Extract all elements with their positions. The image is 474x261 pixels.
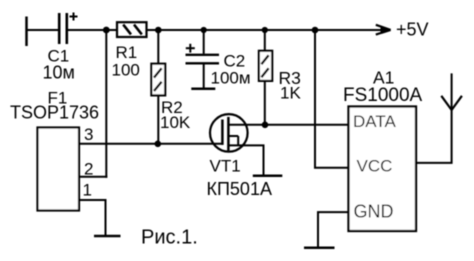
VT1 gate bar bbox=[221, 120, 224, 145]
R3 bottom wire to drain node bbox=[264, 81, 266, 125]
ground bar under C2 bbox=[191, 88, 215, 91]
svg-text:10м: 10м bbox=[43, 63, 75, 83]
drain node junction dot bbox=[262, 122, 269, 129]
R2 bottom wire bbox=[157, 95, 159, 143]
+5V arrowhead bbox=[376, 25, 391, 35]
node D junction dot (R3 top) bbox=[262, 27, 268, 33]
wire: terminal to C1 left plate bbox=[26, 29, 59, 31]
wire: left input terminal bar bbox=[25, 17, 28, 47]
transmitter module A1 box bbox=[349, 107, 417, 232]
capacitor C1 left plate bbox=[58, 13, 61, 44]
VT1 channel bar bbox=[227, 117, 230, 151]
wire: A1 GND pin bbox=[318, 212, 349, 248]
node A junction dot bbox=[103, 27, 110, 34]
ground bar under VT1 source bbox=[253, 175, 282, 178]
wire: F1 pin 2 bbox=[78, 176, 107, 178]
wire: VT1 drain to A1 DATA bbox=[228, 124, 348, 126]
C2 bottom plate bbox=[186, 62, 220, 64]
VT1 substrate tap bbox=[228, 135, 238, 137]
R2 slash 1 bbox=[154, 68, 162, 77]
C2 bottom wire bbox=[203, 63, 205, 89]
wire: node E down to VCC bbox=[314, 30, 316, 168]
svg-text:VT1: VT1 bbox=[210, 157, 241, 176]
R2 slash 2 bbox=[154, 82, 162, 91]
svg-text:VCC: VCC bbox=[357, 157, 393, 176]
svg-text:R1: R1 bbox=[116, 43, 138, 62]
C2 top plate bbox=[186, 54, 220, 56]
svg-text:DATA: DATA bbox=[353, 112, 396, 131]
ground bar under F1 bbox=[94, 235, 121, 238]
ground bar under A1 GND bbox=[304, 247, 335, 250]
svg-text:1K: 1K bbox=[280, 84, 301, 103]
wire: F1 pin 1 bbox=[78, 200, 106, 236]
wire: +5V rail from R1 to arrow bbox=[147, 29, 391, 31]
resistor R2 top wire bbox=[157, 30, 159, 64]
node B junction dot (R1 right / R2 top) bbox=[155, 27, 162, 34]
svg-text:FS1000A: FS1000A bbox=[343, 85, 423, 106]
transistor VT1 circle bbox=[210, 114, 248, 152]
C1 polarity plus sign bbox=[70, 13, 78, 21]
svg-text:КП501А: КП501А bbox=[207, 179, 272, 199]
capacitor C1 right plate bbox=[66, 13, 69, 44]
svg-text:1: 1 bbox=[83, 181, 92, 200]
capacitor C2 top wire bbox=[203, 30, 205, 54]
VT1 source wire bbox=[228, 145, 263, 175]
junction dot R2 bottom on gate wire bbox=[155, 141, 162, 148]
VT1 substrate to source bbox=[237, 136, 239, 145]
svg-text:100м: 100м bbox=[211, 69, 251, 88]
node C junction dot (C2 top) bbox=[201, 27, 207, 33]
resistor R2 body bbox=[151, 64, 165, 96]
resistor R1 body bbox=[117, 22, 147, 37]
R1 slash 1 bbox=[123, 25, 131, 35]
antenna arrowhead bbox=[441, 96, 462, 110]
resistor R3 top wire bbox=[264, 30, 266, 51]
wire: F1 pin 3 to VT1 gate bbox=[78, 143, 223, 145]
svg-text:+5V: +5V bbox=[396, 20, 429, 40]
svg-text:2: 2 bbox=[84, 159, 93, 178]
resistor R3 body bbox=[259, 51, 272, 81]
svg-text:Рис.1.: Рис.1. bbox=[141, 227, 198, 249]
svg-text:TSOP1736: TSOP1736 bbox=[10, 102, 99, 122]
wire: node A down to F1 pins bbox=[105, 30, 107, 178]
wire: A1 antenna lead bbox=[416, 73, 452, 162]
svg-text:GND: GND bbox=[354, 201, 394, 221]
R3 slash 2 bbox=[261, 68, 268, 77]
wire: C1 to node A bbox=[67, 29, 117, 31]
svg-text:100: 100 bbox=[112, 60, 140, 79]
wire: to A1 VCC pin bbox=[314, 167, 349, 169]
R1 slash 2 bbox=[134, 25, 142, 35]
node E junction dot (VCC feed) bbox=[312, 27, 319, 34]
IR receiver F1 box bbox=[38, 128, 80, 211]
R3 slash 1 bbox=[261, 55, 268, 64]
svg-text:3: 3 bbox=[84, 125, 93, 144]
svg-text:10K: 10K bbox=[160, 113, 191, 132]
C2 plus sign bbox=[186, 44, 195, 53]
